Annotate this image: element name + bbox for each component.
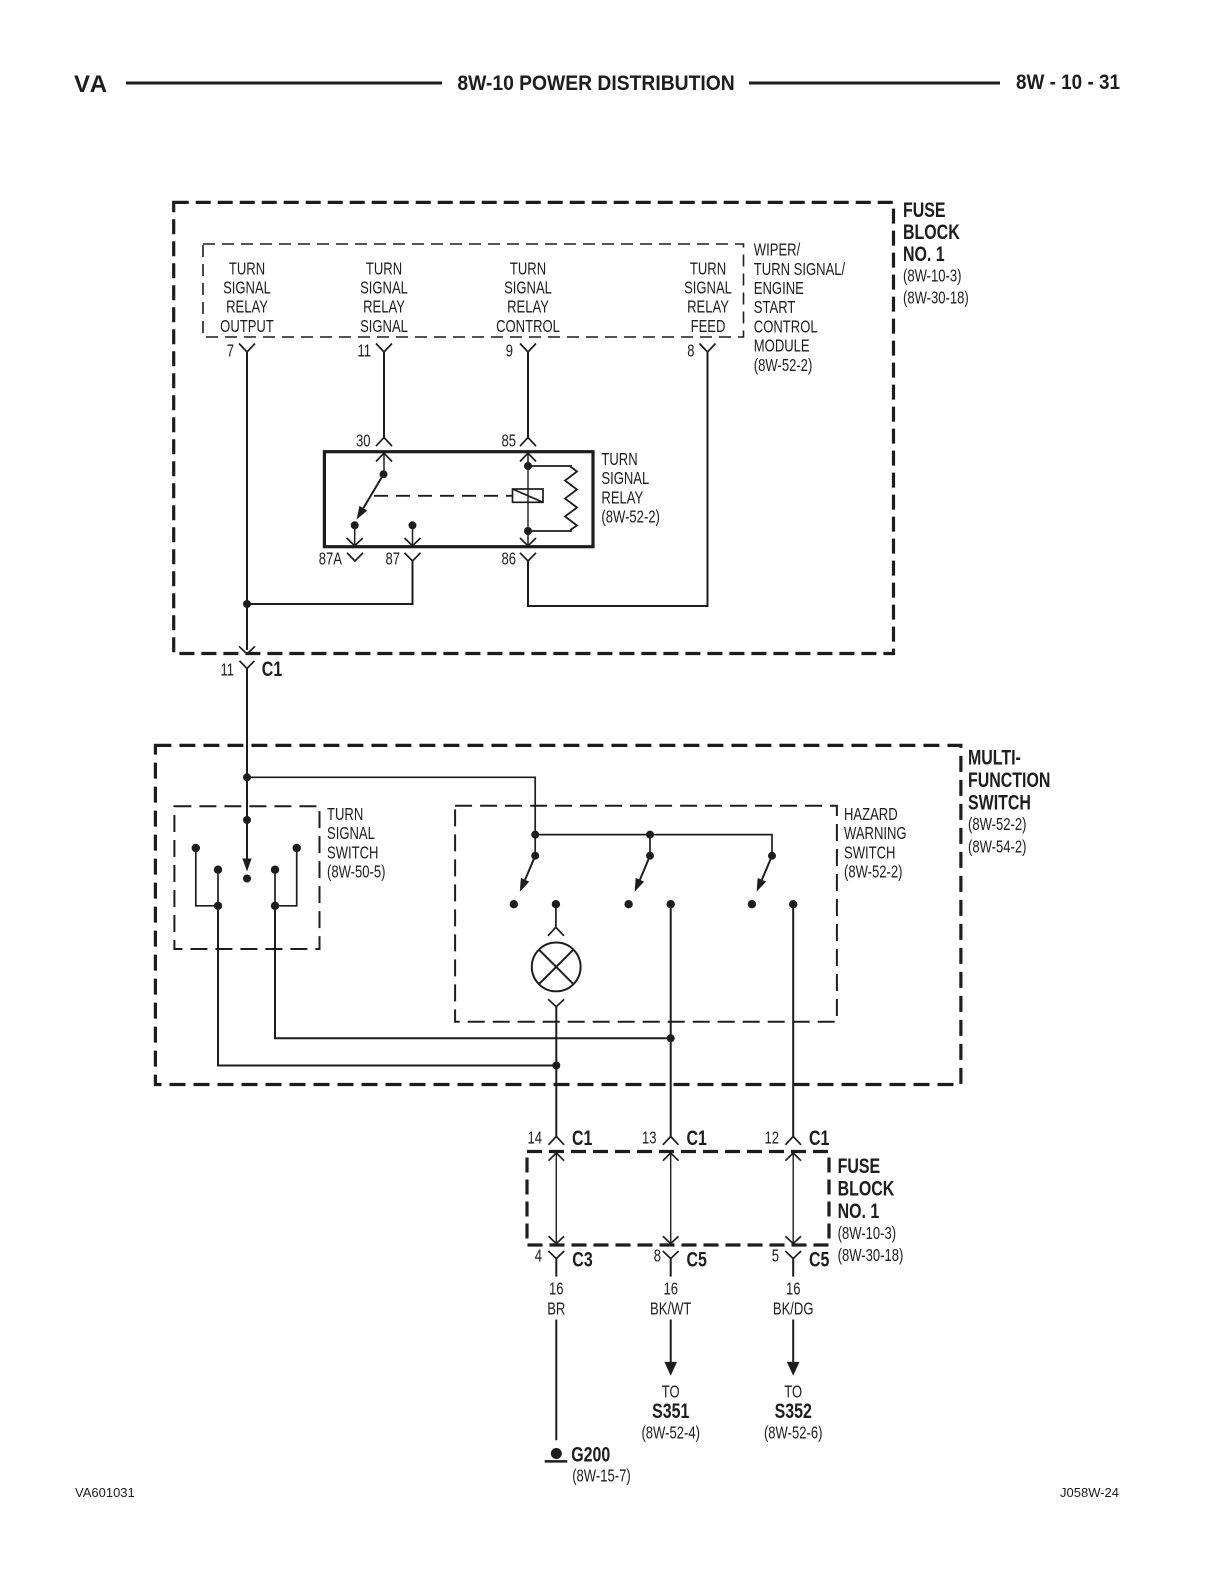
svg-text:START: START [754, 298, 796, 317]
svg-text:SIGNAL: SIGNAL [223, 279, 271, 298]
svg-text:(8W-10-3): (8W-10-3) [903, 267, 961, 286]
svg-text:MULTI-: MULTI- [968, 745, 1021, 769]
svg-text:SWITCH: SWITCH [968, 790, 1031, 814]
S1 left contact group [192, 844, 223, 910]
relay coil node top [524, 462, 532, 470]
page header title 8W-10 POWER DISTRIBUTION [457, 72, 734, 95]
wire hazard output 3 to connector C1 pin12 [792, 904, 794, 1136]
wire label 16 BK/DG [773, 1280, 814, 1319]
fuse block feedthrough 1 [549, 1153, 565, 1244]
svg-text:FUNCTION: FUNCTION [968, 768, 1050, 792]
hazard output node 3 [789, 900, 797, 908]
pin 11 connector of U1 [357, 342, 392, 361]
svg-text:BK/WT: BK/WT [650, 1299, 692, 1318]
lamp feed contact node [548, 900, 564, 936]
connector C1 pin 12 [764, 1126, 829, 1150]
S1 right contact group [271, 844, 301, 910]
svg-text:RELAY: RELAY [226, 298, 268, 317]
hazard switch pole 3 [748, 852, 776, 909]
wire C1 pin11 down to multi-function switch [246, 669, 248, 823]
svg-text:13: 13 [642, 1129, 657, 1148]
svg-text:C1: C1 [809, 1126, 829, 1150]
svg-text:SIGNAL: SIGNAL [601, 469, 649, 488]
U1 label TURN SIGNAL RELAY CONTROL [496, 259, 560, 336]
page header left rule [126, 82, 442, 85]
svg-text:RELAY: RELAY [687, 298, 729, 317]
svg-text:8: 8 [654, 1247, 661, 1266]
node: branch junction to hazard switch [243, 773, 251, 781]
svg-text:(8W-30-18): (8W-30-18) [838, 1246, 904, 1265]
connector C3 pin 4 [535, 1247, 593, 1277]
svg-text:J058W-24: J058W-24 [1060, 1485, 1119, 1500]
svg-text:SIGNAL: SIGNAL [504, 279, 552, 298]
hazard switch pole 1 [510, 835, 540, 909]
U1 label TURN SIGNAL RELAY FEED [684, 259, 732, 336]
svg-text:G200: G200 [571, 1442, 610, 1466]
wire BR to ground [555, 1320, 557, 1441]
relay pin 86 connector [501, 550, 536, 569]
hazard warning switch label [844, 805, 907, 882]
svg-text:TURN: TURN [510, 259, 546, 278]
svg-text:HAZARD: HAZARD [844, 805, 898, 824]
lamp bottom connector [548, 999, 564, 1007]
wire pin9 to relay pin85 [527, 352, 529, 438]
svg-text:8: 8 [687, 342, 694, 361]
wire pin11 to relay pin30 [383, 352, 385, 438]
pin 8 connector of U1 [687, 342, 715, 361]
wire S1 left output to lamp wire [218, 906, 556, 1066]
splice S352 label [764, 1383, 822, 1444]
svg-text:C5: C5 [687, 1247, 707, 1271]
wire label 16 BR [547, 1280, 565, 1319]
fuse block no.1 (bottom) dashed enclosure [527, 1152, 829, 1246]
svg-text:FUSE: FUSE [903, 198, 946, 222]
svg-text:14: 14 [527, 1129, 542, 1148]
svg-text:TURN: TURN [690, 259, 726, 278]
svg-text:(8W-52-2): (8W-52-2) [844, 863, 902, 882]
svg-text:WARNING: WARNING [844, 824, 907, 843]
relay switch arm with arrow [357, 474, 384, 519]
svg-text:16: 16 [786, 1280, 801, 1299]
svg-text:TURN: TURN [601, 450, 637, 469]
splice S351 label [641, 1383, 699, 1444]
relay resistor R1 [528, 466, 577, 531]
wire BK/DG to splice S352 [787, 1320, 800, 1376]
svg-text:11: 11 [220, 661, 234, 680]
svg-text:RELAY: RELAY [507, 298, 549, 317]
relay switch common node [380, 470, 388, 478]
svg-text:C3: C3 [572, 1247, 592, 1271]
svg-text:BR: BR [547, 1299, 565, 1318]
hazard warning switch S2 dashed box [455, 806, 837, 1022]
svg-text:RELAY: RELAY [363, 298, 405, 317]
svg-text:FUSE: FUSE [838, 1154, 881, 1178]
connector C5 pin 8 [654, 1247, 707, 1277]
relay contact 87A node [347, 521, 363, 546]
svg-text:(8W-52-2): (8W-52-2) [754, 356, 812, 375]
wiper/turn signal module U1 dashed box [203, 244, 744, 337]
svg-text:TURN: TURN [366, 259, 402, 278]
svg-text:16: 16 [549, 1280, 564, 1299]
svg-text:VA: VA [74, 71, 109, 98]
relay pin 86 stem [520, 531, 536, 546]
svg-text:WIPER/: WIPER/ [754, 241, 801, 260]
relay K1 label TURN SIGNAL RELAY (8W-52-2) [601, 450, 659, 527]
svg-text:12: 12 [764, 1129, 779, 1148]
svg-text:OUTPUT: OUTPUT [220, 317, 274, 336]
turn signal relay K1 box [324, 452, 593, 547]
fuse block feedthrough 3 [785, 1153, 801, 1244]
svg-text:5: 5 [772, 1247, 779, 1266]
U1 label TURN SIGNAL RELAY OUTPUT [220, 259, 274, 336]
page header right rule [749, 82, 1000, 85]
svg-text:C5: C5 [809, 1247, 829, 1271]
svg-text:(8W-52-4): (8W-52-4) [641, 1424, 699, 1443]
turn signal switch label [327, 805, 385, 882]
fuse block no.1 (bottom) label [838, 1154, 904, 1266]
wire S1 right output to hazard output wire [275, 906, 671, 1039]
svg-text:30: 30 [356, 432, 371, 451]
svg-text:16: 16 [663, 1280, 678, 1299]
relay pin 87A connector [319, 550, 363, 569]
svg-text:BLOCK: BLOCK [838, 1176, 895, 1200]
relay pin 30 [356, 432, 392, 474]
svg-text:S352: S352 [775, 1399, 812, 1423]
U1 label TURN SIGNAL RELAY SIGNAL [360, 259, 408, 336]
svg-text:(8W-54-2): (8W-54-2) [968, 838, 1026, 857]
connector C1 pin 11 [220, 657, 282, 681]
fuse block no.1 (top) label [903, 198, 969, 308]
svg-text:S351: S351 [652, 1399, 689, 1423]
svg-text:(8W-52-6): (8W-52-6) [764, 1424, 822, 1443]
svg-text:CONTROL: CONTROL [496, 317, 560, 336]
wire hazard output 2 to connector C1 pin13 [670, 904, 672, 1136]
svg-text:RELAY: RELAY [601, 489, 643, 508]
connector C5 pin 5 [772, 1247, 830, 1277]
svg-text:(8W-10-3): (8W-10-3) [838, 1224, 896, 1243]
svg-text:TURN: TURN [229, 259, 265, 278]
wire relay pin86 to pin8 [528, 352, 708, 606]
svg-text:BLOCK: BLOCK [903, 220, 960, 244]
svg-text:11: 11 [357, 342, 371, 361]
svg-text:VA601031: VA601031 [75, 1485, 135, 1500]
junction on pin7 wire [243, 600, 251, 608]
relay contact 87 node [405, 521, 421, 546]
relay pin 87 connector [385, 550, 420, 569]
svg-text:C1: C1 [572, 1126, 592, 1150]
svg-text:SIGNAL: SIGNAL [360, 317, 408, 336]
svg-text:SWITCH: SWITCH [327, 844, 378, 863]
svg-text:C1: C1 [262, 657, 282, 681]
svg-text:SIGNAL: SIGNAL [684, 279, 732, 298]
footer plate number J058W-24 [1060, 1485, 1119, 1500]
relay coil symbol box [513, 489, 544, 502]
page header left label VA [74, 71, 109, 98]
turn signal switch S1 dashed box [174, 806, 319, 949]
svg-text:FEED: FEED [691, 317, 726, 336]
svg-text:4: 4 [535, 1247, 542, 1266]
svg-text:SWITCH: SWITCH [844, 844, 895, 863]
relay coil node bottom [524, 527, 532, 535]
fuse block no.1 (top) dashed enclosure [174, 202, 894, 653]
multi-function switch label [968, 745, 1050, 857]
svg-text:C1: C1 [687, 1126, 707, 1150]
wire branch to hazard switch [247, 777, 535, 834]
svg-text:85: 85 [501, 432, 516, 451]
svg-text:9: 9 [506, 342, 513, 361]
svg-text:ENGINE: ENGINE [754, 279, 804, 298]
svg-text:87: 87 [385, 550, 400, 569]
junction hazard output 2 and S1 right output [667, 1034, 675, 1042]
hazard bus wire [535, 835, 772, 856]
svg-text:87A: 87A [319, 550, 343, 569]
svg-text:BK/DG: BK/DG [773, 1299, 814, 1318]
svg-text:MODULE: MODULE [754, 337, 810, 356]
lamp DS1 hazard indicator [532, 943, 581, 992]
footer diagram number VA601031 [75, 1485, 135, 1500]
svg-text:(8W-52-2): (8W-52-2) [601, 508, 659, 527]
svg-text:NO. 1: NO. 1 [838, 1199, 880, 1223]
wire lamp to connector C1 pin14 [555, 1007, 557, 1136]
wire label 16 BK/WT [650, 1280, 692, 1319]
junction lamp wire and S1 left output [552, 1062, 560, 1070]
hazard output node 2 [667, 900, 675, 908]
connector C1 pin 13 [642, 1126, 707, 1150]
S1 common contact node [243, 875, 251, 883]
pin 7 connector of U1 [227, 342, 255, 361]
svg-text:7: 7 [227, 342, 234, 361]
hazard switch pole 2 [624, 852, 654, 909]
S1 input node [243, 816, 251, 824]
svg-text:8W - 10 - 31: 8W - 10 - 31 [1016, 71, 1120, 94]
relay coil link dashed [374, 495, 512, 497]
svg-text:TURN: TURN [327, 805, 363, 824]
svg-text:CONTROL: CONTROL [754, 318, 818, 337]
svg-text:8W-10 POWER DISTRIBUTION: 8W-10 POWER DISTRIBUTION [457, 72, 734, 95]
hazard bus node middle [646, 831, 654, 856]
svg-text:SIGNAL: SIGNAL [360, 279, 408, 298]
relay coil vertical wire [527, 466, 529, 531]
connector C1 pin 14 [527, 1126, 592, 1150]
wire BK/WT to splice S351 [664, 1320, 677, 1376]
svg-text:(8W-30-18): (8W-30-18) [903, 289, 969, 308]
svg-text:SIGNAL: SIGNAL [327, 824, 375, 843]
svg-text:(8W-52-2): (8W-52-2) [968, 815, 1026, 834]
svg-text:(8W-15-7): (8W-15-7) [572, 1467, 630, 1486]
svg-text:(8W-50-5): (8W-50-5) [327, 863, 385, 882]
svg-text:NO. 1: NO. 1 [903, 242, 945, 266]
page header page number 8W - 10 - 31 [1016, 71, 1120, 94]
wire pin7 to C1 exit [246, 352, 248, 650]
multi-function switch dashed enclosure [155, 745, 961, 1084]
module name WIPER/TURN SIGNAL/ENGINE START CONTROL MODULE (8W-52-2) [754, 241, 846, 376]
fuse block exit chevron above edge [239, 646, 255, 654]
pin 9 connector of U1 [506, 342, 536, 361]
relay pin 85 [501, 432, 536, 466]
wire relay pin87 to node on pin7 wire [247, 561, 413, 604]
S1 wiper arrow [242, 820, 251, 872]
hazard bus entry node [531, 831, 539, 839]
svg-text:TURN SIGNAL/: TURN SIGNAL/ [754, 260, 846, 279]
svg-text:86: 86 [501, 550, 516, 569]
ground G200 [545, 1442, 631, 1486]
fuse block feedthrough 2 [663, 1153, 679, 1244]
